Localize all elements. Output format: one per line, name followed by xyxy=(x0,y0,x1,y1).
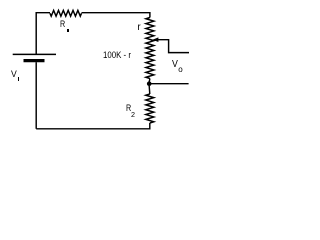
label V1 (source) xyxy=(11,69,17,78)
label V1 subscript xyxy=(18,77,20,81)
wire wiper to upper output terminal xyxy=(158,40,189,53)
wire potentiometer bottom to node A xyxy=(148,79,151,83)
wire top-right: R1 across to potentiometer top xyxy=(82,13,150,18)
wire top-left: battery positive up and across to R1 xyxy=(36,13,50,55)
label R2 subscript xyxy=(131,111,135,118)
battery V1 negative plate (short thick) xyxy=(24,59,45,62)
potentiometer 100K winding xyxy=(146,18,154,79)
resistor R1 xyxy=(50,10,82,16)
resistor R2 xyxy=(146,94,154,123)
potentiometer wiper arrow xyxy=(152,37,158,42)
label R1 subscript xyxy=(67,29,69,33)
wire bottom rail xyxy=(36,123,150,129)
wire node A down to R2 xyxy=(148,86,151,94)
node A junction dot xyxy=(147,81,152,86)
battery V1 positive plate (long thin) xyxy=(13,53,56,55)
wire lower output terminal from node A xyxy=(149,83,188,85)
label R2 xyxy=(126,104,131,114)
label r (upper pot section) xyxy=(137,23,140,33)
label Vo (output) xyxy=(172,60,178,70)
wire left vertical: battery negative down to bottom rail xyxy=(35,62,37,129)
label 100K - r xyxy=(103,51,131,60)
label R1 xyxy=(60,20,65,30)
label Vo subscript xyxy=(178,66,182,74)
